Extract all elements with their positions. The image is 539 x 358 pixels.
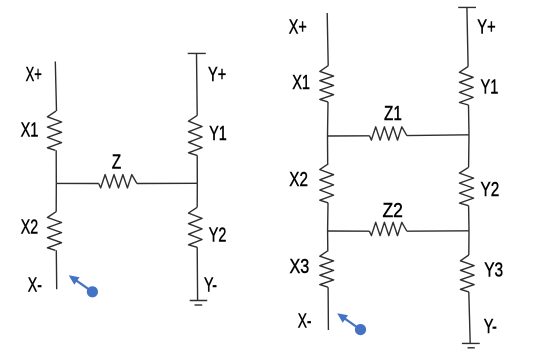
svg-text:X2: X2: [21, 217, 38, 239]
pointer cursor (right circuit): [337, 313, 366, 335]
resistor Y2 (left circuit): [189, 207, 203, 247]
wire Y- lead (left circuit): [196, 247, 198, 300]
svg-text:Y1: Y1: [209, 123, 227, 145]
label Y+ (right circuit): [477, 16, 495, 38]
pointer cursor (left circuit): [69, 275, 98, 297]
wire node to Y3 (right circuit): [468, 231, 470, 255]
label X2 (left circuit): [21, 217, 38, 239]
wire X1 to node (left circuit): [55, 150, 57, 183]
wire Z2 to node (right circuit): [407, 230, 469, 232]
svg-text:Z: Z: [112, 151, 121, 173]
label X+ (left circuit): [26, 64, 42, 86]
svg-text:Y+: Y+: [208, 64, 226, 86]
wire Z to node (left circuit): [137, 182, 197, 184]
label Y1 (right circuit): [481, 76, 499, 98]
svg-text:Y+: Y+: [477, 16, 495, 38]
resistor Z2 (right circuit): [369, 222, 407, 235]
svg-text:X+: X+: [26, 64, 42, 86]
svg-text:Z1: Z1: [384, 103, 402, 125]
svg-text:Y-: Y-: [484, 316, 497, 338]
label X- (right circuit): [298, 310, 312, 332]
label X- (left circuit): [28, 275, 42, 297]
label X+ (right circuit): [289, 16, 307, 38]
wire node 1 to Z1 (right circuit): [328, 135, 370, 137]
wire Y- lead (right circuit): [469, 292, 470, 344]
ground (right circuit): [462, 343, 480, 347]
resistor Y2 (right circuit): [459, 167, 473, 205]
svg-text:Z2: Z2: [383, 200, 403, 222]
svg-text:X1: X1: [292, 72, 310, 94]
resistor X2 (right circuit): [320, 164, 334, 203]
wire Y2 to node (right circuit): [468, 206, 470, 231]
label Y1 (left circuit): [209, 123, 227, 145]
wire node 2 to Z2 (right circuit): [328, 230, 370, 232]
svg-text:X2: X2: [289, 169, 308, 191]
label Y3 (right circuit): [484, 259, 503, 281]
label X1 (left circuit): [21, 120, 39, 142]
wire X- lead (right circuit): [327, 287, 329, 330]
label Z1 (right circuit): [384, 103, 402, 125]
wire node 1 to X2 (right circuit): [327, 136, 329, 164]
resistor X2 (left circuit): [47, 212, 61, 251]
label Y- (left circuit): [204, 275, 217, 297]
wire X+ lead (left circuit): [55, 62, 56, 112]
svg-text:X-: X-: [28, 275, 42, 297]
label Y2 (left circuit): [209, 225, 227, 247]
label X1 (right circuit): [292, 72, 310, 94]
wire Y1 to node (right circuit): [468, 105, 471, 135]
resistor Z (left circuit): [99, 175, 137, 188]
svg-text:Y2: Y2: [481, 179, 500, 201]
wire node to Y2 (right circuit): [468, 135, 470, 168]
resistor Z1 (right circuit): [369, 127, 407, 140]
label Z (left circuit): [112, 151, 121, 173]
resistor Y3 (right circuit): [460, 255, 474, 292]
wire Y+ lead (right circuit): [467, 7, 468, 66]
svg-text:X1: X1: [21, 120, 39, 142]
svg-text:X-: X-: [298, 310, 312, 332]
label X3 (right circuit): [290, 256, 310, 278]
wire Y+ lead (left circuit): [196, 53, 199, 115]
terminal Y+ bar (right circuit): [458, 6, 476, 8]
svg-text:Y2: Y2: [209, 225, 227, 247]
wire X+ lead (right circuit): [327, 13, 328, 66]
wire node to Z (left circuit): [56, 182, 98, 184]
wire X2 to node 2 (right circuit): [327, 203, 329, 231]
svg-text:X3: X3: [290, 256, 310, 278]
resistor Y1 (right circuit): [459, 67, 473, 106]
wire Y1 to node (left circuit): [196, 155, 198, 183]
wire Z1 to node (right circuit): [407, 134, 469, 137]
ground (left circuit): [190, 301, 208, 306]
terminal Y+ bar (left circuit): [188, 52, 206, 54]
label Y+ (left circuit): [208, 64, 226, 86]
wire node 2 to X3 (right circuit): [327, 231, 329, 250]
label Y2 (right circuit): [481, 179, 500, 201]
svg-text:Y1: Y1: [481, 76, 499, 98]
label Y- (right circuit): [484, 316, 497, 338]
label X2 (right circuit): [289, 169, 308, 191]
wire X- lead (left circuit): [55, 250, 57, 289]
resistor Y1 (left circuit): [189, 115, 203, 155]
resistor X1 (left circuit): [47, 111, 61, 150]
svg-text:Y3: Y3: [484, 259, 503, 281]
wire X1 to node 1 (right circuit): [327, 102, 330, 136]
wire node to X2 (left circuit): [55, 183, 57, 211]
svg-text:X+: X+: [289, 16, 307, 38]
label Z2 (right circuit): [383, 200, 403, 222]
resistor X3 (right circuit): [320, 250, 334, 287]
wire node to Y2 (left circuit): [196, 183, 198, 207]
svg-text:Y-: Y-: [204, 275, 217, 297]
resistor X1 (right circuit): [320, 66, 334, 102]
